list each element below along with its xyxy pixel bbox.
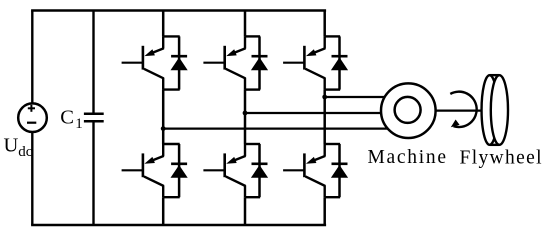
wire: leg B midpoint between IGBTs — [244, 90, 247, 144]
wire: left vertical from source to bottom rail — [31, 132, 33, 225]
wire: collector stub below jog, leg B upper — [244, 36, 246, 48]
freewheeling diode, leg B upper — [251, 36, 268, 89]
wire: phase A output line to machine — [163, 128, 404, 130]
wire: leg A from lower IGBT to bottom rail — [162, 197, 165, 225]
wire: collector stub below jog, leg C lower — [324, 144, 326, 156]
wire: leg B from top rail to upper IGBT — [244, 11, 247, 37]
label Udc — [4, 134, 33, 160]
wire: collector stub below jog, leg A upper — [162, 36, 164, 48]
wire: leg C from lower IGBT to bottom rail — [323, 197, 326, 225]
wire: collector jog top, leg C upper — [325, 35, 340, 37]
wire: leg A midpoint between IGBTs — [162, 90, 165, 144]
wire: emitter jog bottom, leg A upper — [163, 88, 180, 90]
svg-text:U: U — [4, 134, 19, 156]
wire: collector stub below jog, leg B lower — [244, 144, 246, 156]
wire: emitter jog bottom, leg C upper — [325, 88, 340, 90]
wire: emitter jog bottom, leg B upper — [245, 88, 260, 90]
freewheeling diode, leg A upper — [171, 36, 188, 89]
minus sign of source — [27, 122, 36, 124]
wire: collector jog top, leg A lower — [163, 143, 180, 145]
freewheeling diode, leg C lower — [331, 144, 348, 197]
wire: leg C midpoint between IGBTs — [323, 90, 326, 144]
wire: leg B from lower IGBT to bottom rail — [244, 197, 247, 225]
label C1 — [60, 107, 82, 133]
node: junction dot phase A — [161, 126, 166, 131]
wire: emitter jog bottom, leg B lower — [245, 196, 260, 198]
IGBT transistor, leg C upper — [304, 46, 325, 90]
wire: collector jog top, leg B lower — [245, 143, 260, 145]
IGBT transistor, leg C lower — [304, 153, 325, 197]
wire: bottom DC bus rail — [31, 224, 326, 227]
wire: collector jog top, leg C lower — [325, 143, 340, 145]
wire: gate stub, leg B lower — [203, 169, 224, 171]
IGBT transistor, leg A upper — [143, 46, 164, 90]
freewheeling diode, leg C upper — [331, 36, 348, 89]
IGBT transistor, leg A lower — [143, 153, 164, 197]
DC voltage source Udc circle — [18, 103, 47, 132]
IGBT transistor, leg B upper — [225, 46, 246, 90]
wire: collector jog top, leg B upper — [245, 35, 260, 37]
svg-text:dc: dc — [18, 144, 33, 160]
wire: leg A from top rail to upper IGBT — [162, 11, 165, 37]
freewheeling diode, leg A lower — [171, 144, 188, 197]
wire: gate stub, leg B upper — [203, 62, 224, 64]
wire: leg C from top rail to upper IGBT — [323, 11, 326, 37]
flywheel disk — [482, 75, 508, 145]
wire: emitter jog bottom, leg C lower — [325, 196, 340, 198]
rotation direction arrow — [450, 92, 476, 128]
wire: collector stub below jog, leg A lower — [162, 144, 164, 156]
wire: gate stub, leg A upper — [122, 62, 143, 64]
wire: shaft from machine to flywheel — [435, 109, 491, 111]
svg-text:C: C — [60, 107, 74, 129]
node: junction dot phase C — [322, 95, 327, 100]
wire: top DC bus rail — [31, 9, 326, 12]
plus sign of source — [28, 105, 35, 112]
svg-text:Flywheel: Flywheel — [460, 147, 543, 168]
wire: gate stub, leg A lower — [122, 169, 143, 171]
svg-text:Machine: Machine — [368, 147, 447, 168]
svg-text:1: 1 — [75, 116, 83, 132]
wire: phase B output line to machine — [245, 112, 404, 114]
IGBT transistor, leg B lower — [225, 153, 246, 197]
wire: capacitor branch top — [92, 11, 94, 113]
node: junction dot phase B — [243, 111, 248, 116]
machine (motor/generator) symbol — [381, 83, 436, 138]
freewheeling diode, leg B lower — [251, 144, 268, 197]
wire: left vertical from top rail to source — [31, 11, 33, 104]
wire: emitter jog bottom, leg A lower — [163, 196, 180, 198]
wire: gate stub, leg C upper — [283, 62, 304, 64]
wire: collector jog top, leg A upper — [163, 35, 180, 37]
wire: phase C output line to machine — [325, 96, 404, 98]
wire: capacitor branch bottom — [92, 122, 94, 225]
wire: gate stub, leg C lower — [283, 169, 304, 171]
capacitor C1 plates — [84, 114, 104, 122]
wire: collector stub below jog, leg C upper — [324, 36, 326, 48]
